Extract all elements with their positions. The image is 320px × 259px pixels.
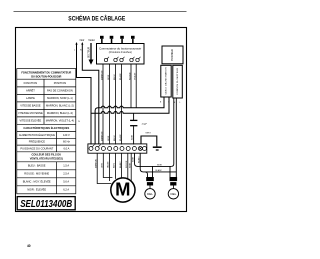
svg-text:VIOLET: VIOLET: [135, 72, 137, 80]
svg-text:(4 boutons 4 touches): (4 boutons 4 touches): [109, 51, 132, 54]
svg-text:NOIR: NOIR: [157, 164, 162, 166]
svg-text:ROUGE: ROUGE: [129, 72, 131, 80]
svg-text:BORNIER: BORNIER: [172, 49, 174, 61]
svg-text:60 Hz: 60 Hz: [63, 140, 70, 144]
LED lamp DS2: [172, 186, 174, 190]
svg-text:CORDON DU MOTEUR: CORDON DU MOTEUR: [177, 67, 179, 95]
svg-text:ROUGE : MOYENNE: ROUGE : MOYENNE: [24, 171, 49, 175]
wire: switch bleu to strip: [115, 64, 117, 145]
svg-text:BLEU: BLEU: [114, 162, 116, 168]
svg-text:MARRON: MARRON: [100, 70, 103, 80]
svg-text:PAS DE CONNEXION: PAS DE CONNEXION: [47, 89, 73, 93]
svg-text:DEL: DEL: [147, 192, 153, 196]
wire: bus B drop into lamp socket 1: [145, 172, 148, 177]
wire: strip to motor (jaune): [108, 154, 110, 182]
motor cord box (right column, rotated text): [173, 65, 183, 98]
svg-text:NOIR: NOIR: [129, 162, 131, 168]
wire colour labels (upper): [100, 70, 136, 80]
svg-text:4,5µF: 4,5µF: [142, 124, 148, 126]
outer frame: [16, 28, 187, 212]
lamp socket 1: [146, 177, 154, 186]
wire: bus A drop into lamp socket 1: [152, 166, 154, 177]
wire: strip to motor (noir): [130, 154, 132, 181]
wire: strip to motor (bleu): [115, 154, 117, 179]
svg-text:6,2 A: 6,2 A: [63, 187, 69, 191]
svg-text:1,5 A: 1,5 A: [63, 163, 69, 167]
table: electrical ratings: [17, 132, 76, 152]
wire: strip to motor (rouge): [127, 154, 129, 180]
svg-text:Noir: Noir: [80, 38, 85, 42]
lamp feed wire B from strip (rounded bends): [140, 154, 176, 172]
bus wire: line bus from power box to strip (with crossing hops): [95, 97, 164, 145]
svg-text:MARRON, BLEU (L-3): MARRON, BLEU (L-3): [47, 111, 73, 115]
svg-text:SECTEUR: SECTEUR: [88, 47, 90, 58]
wire: switch blanc to strip: [121, 64, 123, 145]
svg-text:NOIR: NOIR: [108, 74, 110, 80]
button caps: [100, 36, 135, 44]
svg-text:POSITION: POSITION: [54, 81, 67, 85]
ground symbol: [153, 146, 162, 148]
table: fan speed wire colours: [17, 162, 76, 194]
svg-text:VERT: VERT: [145, 133, 151, 135]
svg-text:BLANC: BLANC: [156, 169, 163, 172]
power arrow (to mains) with label: [90, 43, 92, 60]
power cable box (left column, rotated text): [161, 65, 171, 97]
svg-text:Violet: Violet: [88, 38, 95, 42]
svg-text:NOIR: NOIR: [131, 134, 133, 140]
svg-text:BLEU: BLEU: [114, 74, 116, 80]
svg-text:NOIR: NOIR: [108, 135, 110, 141]
part number label SEL0113400B: [17, 197, 75, 210]
svg-text:SCHÉMA DE CÂBLAGE: SCHÉMA DE CÂBLAGE: [68, 14, 125, 23]
svg-text:L: L: [180, 102, 181, 104]
svg-text:VENTILATEUR (VITESSES): VENTILATEUR (VITESSES): [30, 157, 63, 161]
terminal strip X1: [88, 144, 147, 153]
switch terminals: [104, 58, 139, 61]
trunk wire from motor cord box to lamp bus A: [171, 98, 174, 166]
pin labels under terminal blocks: [160, 102, 181, 105]
svg-text:MARRON, VIOLET (L-4): MARRON, VIOLET (L-4): [46, 119, 74, 123]
svg-text:DEL: DEL: [170, 192, 176, 196]
wire B: noir feed down to terminal strip: [82, 44, 99, 145]
strip wiper ticks: [92, 145, 101, 148]
crossed terminal: [139, 147, 142, 150]
svg-text:BLEU: BLEU: [114, 135, 116, 141]
svg-text:MARRON: MARRON: [100, 131, 103, 141]
svg-text:BLANC: BLANC: [119, 73, 122, 80]
push-button switch S1: [97, 36, 145, 64]
bus wire: neutral bus from power box to strip (with crossing hops): [91, 97, 169, 113]
lamp socket 2: [170, 177, 178, 186]
top rule: [14, 10, 187, 12]
svg-text:MARRON, BLANC (L-2): MARRON, BLANC (L-2): [46, 104, 74, 108]
svg-text:LAMPE: LAMPE: [26, 96, 35, 100]
svg-text:NOIR: NOIR: [133, 156, 135, 162]
wire: switch noir to strip: [109, 64, 111, 145]
table: push-button switch function table: [17, 69, 76, 194]
motor wire colour labels: [94, 159, 131, 168]
svg-text:FONCTIONNEMENT DU COMMUTATEUR: FONCTIONNEMENT DU COMMUTATEUR: [21, 71, 71, 75]
svg-text:JAUNE: JAUNE: [107, 161, 110, 168]
wire: strip to motor (blanc): [121, 154, 123, 179]
wire: bus A drop into lamp socket 2: [169, 166, 171, 177]
motor M1: [111, 178, 135, 202]
svg-text:COULEUR DES FILS DU: COULEUR DES FILS DU: [31, 153, 61, 157]
svg-text:GRIS: GRIS: [102, 162, 104, 168]
wire: switch marron to strip: [102, 64, 104, 145]
svg-text:ROUGE: ROUGE: [126, 160, 128, 168]
svg-text:PUISSANCE DU COURANT: PUISSANCE DU COURANT: [20, 147, 53, 151]
svg-text:M: M: [115, 179, 130, 200]
capacitor C1: [133, 113, 135, 120]
wire A: left feed down to terminal strip: [77, 44, 92, 145]
svg-text:BLEU : BASSE: BLEU : BASSE: [28, 163, 46, 167]
svg-text:2,5 A: 2,5 A: [63, 171, 69, 175]
svg-text:6,0 A: 6,0 A: [63, 147, 69, 151]
svg-text:5,6 A: 5,6 A: [63, 179, 69, 183]
wire: strip to motor (marron): [97, 154, 111, 184]
svg-text:120 V: 120 V: [63, 133, 70, 137]
terminal block TB1 (top box, rotated text): [162, 46, 183, 64]
ground wire: [141, 136, 157, 146]
lamp feed wire A from strip (rounded bends): [135, 154, 172, 167]
svg-text:40: 40: [27, 244, 31, 248]
svg-text:VITESSE MOYENNE: VITESSE MOYENNE: [18, 111, 43, 115]
wire colour labels (lower, near strip): [100, 131, 121, 141]
svg-text:SEL0113400B: SEL0113400B: [20, 199, 72, 210]
svg-text:FONCTION: FONCTION: [24, 81, 38, 85]
LED lamp DS1: [149, 186, 151, 190]
wire: strip to motor (gris): [103, 154, 112, 178]
svg-text:DU BOUTON-POUSSOIR: DU BOUTON-POUSSOIR: [31, 74, 61, 78]
wire: switch violet to line bus: [135, 64, 137, 108]
svg-text:VITESSE BASSE: VITESSE BASSE: [20, 104, 41, 108]
trunk wire from motor cord box to lamp socket 2: [175, 98, 177, 177]
svg-text:CÂBLE D'ALIMENTATION: CÂBLE D'ALIMENTATION: [164, 67, 167, 95]
svg-text:MARRON: MARRON: [94, 159, 97, 168]
svg-text:BLANC: BLANC: [119, 161, 122, 168]
svg-text:MARRON, NOIR (L-1): MARRON, NOIR (L-1): [47, 96, 73, 100]
svg-text:BLANC: BLANC: [119, 134, 122, 141]
svg-text:BLANC: BLANC: [137, 156, 140, 163]
wire: switch rouge to line bus: [130, 64, 132, 108]
